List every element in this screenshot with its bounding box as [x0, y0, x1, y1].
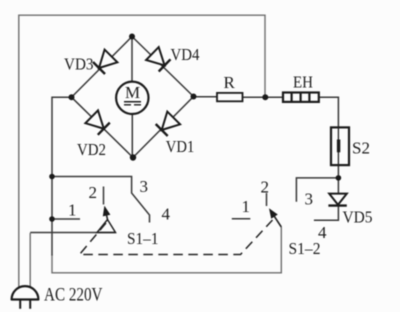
- svg-text:S1–1: S1–1: [127, 229, 159, 248]
- svg-text:R: R: [224, 73, 236, 92]
- svg-text:AC 220V: AC 220V: [44, 285, 103, 305]
- svg-text:VD4: VD4: [171, 45, 200, 64]
- svg-text:4: 4: [162, 204, 171, 223]
- svg-text:S2: S2: [352, 139, 370, 158]
- svg-text:3: 3: [140, 177, 149, 196]
- svg-text:2: 2: [89, 183, 98, 202]
- svg-text:1: 1: [68, 201, 77, 220]
- svg-text:EH: EH: [293, 72, 313, 91]
- svg-text:S1–2: S1–2: [289, 239, 321, 258]
- svg-text:1: 1: [242, 197, 251, 216]
- svg-text:M: M: [125, 83, 140, 102]
- svg-text:VD5: VD5: [343, 208, 373, 227]
- svg-text:2: 2: [261, 177, 270, 196]
- svg-text:VD2: VD2: [77, 140, 106, 159]
- svg-text:3: 3: [305, 190, 314, 209]
- svg-text:VD1: VD1: [166, 137, 195, 156]
- svg-text:VD3: VD3: [64, 55, 94, 74]
